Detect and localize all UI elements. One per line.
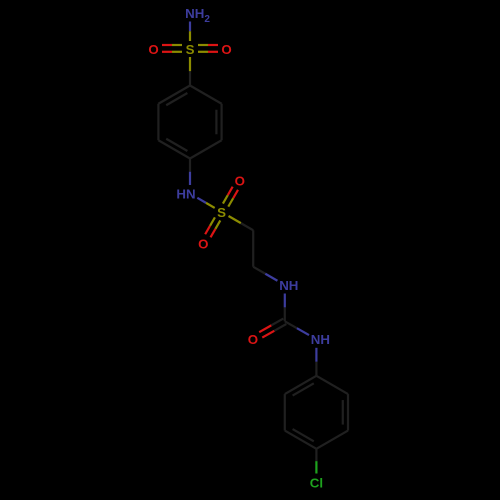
label O lower of S2 bbox=[198, 236, 208, 251]
svg-text:O: O bbox=[198, 236, 208, 251]
bond ring1-N1 bbox=[189, 159, 191, 186]
bond C3-N3 bbox=[285, 321, 309, 335]
ring1 bond Cf=Ca bbox=[158, 86, 190, 106]
bond N0-S1 (H2N-S) bbox=[189, 22, 191, 42]
label Cl bbox=[310, 475, 323, 490]
bond N1-S2 bbox=[197, 198, 214, 208]
ring2 bond Cj=Ck bbox=[285, 429, 317, 449]
ring2 bond Ck-Cl1 bbox=[284, 394, 286, 431]
ring1 bond Cb=Cc bbox=[216, 104, 221, 141]
svg-text:NH: NH bbox=[279, 278, 298, 293]
label S1 bbox=[186, 42, 195, 57]
svg-text:O: O bbox=[248, 332, 258, 347]
ring1 bond Ca-Cb bbox=[190, 86, 222, 104]
bond N3-ring2 bbox=[315, 348, 317, 376]
bond S1=O right bbox=[198, 45, 218, 52]
ring2 bond Cg-Ch bbox=[316, 376, 348, 394]
ring1 bond Ce-Cf bbox=[157, 104, 159, 141]
label NH on N2 bbox=[279, 278, 298, 293]
label O right of S1 bbox=[221, 42, 231, 57]
svg-text:S: S bbox=[217, 205, 226, 220]
svg-text:O: O bbox=[235, 173, 245, 188]
ring2 bond Ci-Cj bbox=[316, 431, 348, 449]
bond S1=O left bbox=[162, 45, 182, 52]
svg-text:S: S bbox=[186, 42, 195, 57]
bond S2=O upper bbox=[223, 187, 238, 207]
ring2 bond Cl1=Cg bbox=[285, 376, 317, 396]
label S2 bbox=[217, 205, 226, 220]
bond C2-N2 bbox=[253, 267, 277, 281]
bond ring2-Cl bbox=[315, 449, 317, 474]
bond S1-ring1 bbox=[189, 57, 191, 86]
bond N2-C3 bbox=[284, 294, 286, 322]
svg-text:O: O bbox=[221, 42, 231, 57]
ring1 bond Cc-Cd bbox=[190, 140, 222, 158]
label NH on N3 bbox=[311, 332, 330, 347]
bond C3=O urea bbox=[259, 319, 286, 338]
label O urea bbox=[248, 332, 258, 347]
label NH2 on N0 bbox=[185, 6, 210, 25]
svg-text:O: O bbox=[148, 42, 158, 57]
svg-text:Cl: Cl bbox=[310, 475, 323, 490]
bond C1-C2 bbox=[252, 230, 254, 267]
svg-text:HN: HN bbox=[176, 186, 195, 201]
label HN on N1 bbox=[176, 186, 195, 201]
bond S2-C1 bbox=[229, 216, 254, 230]
svg-text:NH: NH bbox=[311, 332, 330, 347]
ring1 bond Cd=Ce bbox=[158, 139, 190, 159]
bond S2=O lower bbox=[205, 217, 220, 237]
label O upper of S2 bbox=[235, 173, 245, 188]
ring2 bond Ch=Ci bbox=[343, 394, 348, 431]
label O left of S1 bbox=[148, 42, 158, 57]
